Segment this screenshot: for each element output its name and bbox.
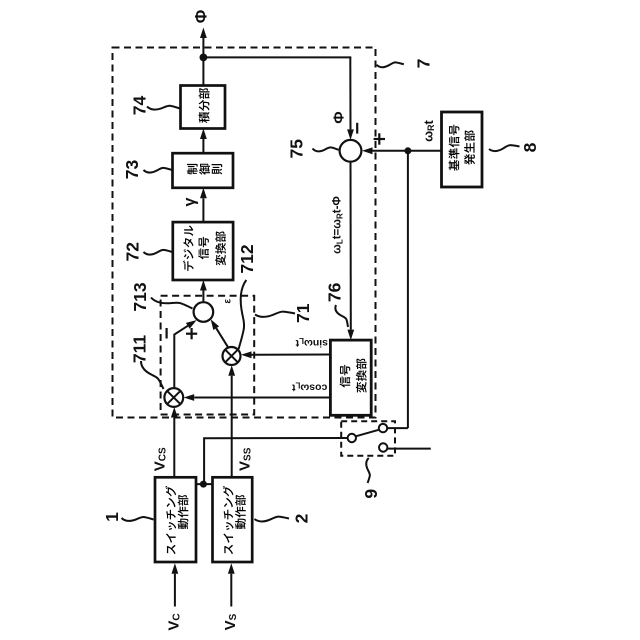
block 2 switching operation <box>213 477 253 562</box>
svg-text:71: 71 <box>293 303 313 323</box>
svg-text:1: 1 <box>102 512 122 522</box>
wire output arrow to Phi <box>202 38 204 57</box>
squiggle 711 <box>141 361 164 389</box>
wire bottom contact stub <box>388 448 431 450</box>
multiplier 712 <box>223 347 241 365</box>
svg-text:Φ: Φ <box>193 9 211 23</box>
squiggle 8 <box>489 145 520 151</box>
svg-text:76: 76 <box>325 282 345 302</box>
wire Vcs into 711 <box>173 418 175 478</box>
svg-text:75: 75 <box>287 139 307 159</box>
block 8 reference signal generator <box>442 112 483 187</box>
svg-text:7: 7 <box>414 59 434 69</box>
svg-text:711: 711 <box>130 335 150 363</box>
wire 711 to 713 <box>174 326 188 388</box>
switch 9 dashed box <box>341 421 395 456</box>
squiggle 7 <box>377 62 404 67</box>
svg-text:74: 74 <box>129 96 149 116</box>
summing circle 713 <box>194 302 214 322</box>
squiggle 712 <box>239 280 247 349</box>
squiggle 73 <box>144 168 173 173</box>
minus sign at 713 <box>166 328 168 339</box>
wire Vc input <box>174 574 176 607</box>
wire junction stub <box>196 483 213 485</box>
node junction at output <box>200 54 208 62</box>
squiggle 713 <box>151 298 193 309</box>
switch contact top <box>379 424 387 432</box>
wire Vs input <box>230 574 232 607</box>
node junction right <box>404 147 411 154</box>
squiggle 76 <box>335 305 348 327</box>
svg-text:73: 73 <box>122 160 142 180</box>
svg-text:9: 9 <box>361 489 381 499</box>
svg-text:Φ: Φ <box>330 111 347 123</box>
switch lever <box>356 430 380 437</box>
wire 75 to 76, omega_L t = omega_R t - Phi <box>350 162 352 330</box>
block 73 control law <box>173 153 234 188</box>
svg-text:ωLt=ωRt-Φ: ωLt=ωRt-Φ <box>331 196 344 254</box>
wire node to box 8 <box>408 150 442 152</box>
svg-text:ε: ε <box>223 299 234 304</box>
wire 712 to 713 <box>216 328 229 348</box>
minus sign at 75 top input <box>356 123 358 134</box>
wire switch to blocks junction <box>204 438 347 484</box>
squiggle 71 <box>255 312 295 317</box>
block 72 digital signal converter <box>173 222 233 280</box>
squiggle 72 <box>144 250 173 255</box>
block 76 signal converter <box>330 340 371 415</box>
svg-text:713: 713 <box>130 282 150 311</box>
svg-text:712: 712 <box>237 244 257 273</box>
svg-text:γ: γ <box>182 197 199 206</box>
switch contact bottom <box>379 443 387 451</box>
svg-text:sinωLt: sinωLt <box>295 337 328 350</box>
wire node to switch 9 <box>407 151 409 428</box>
plus sign at 713 <box>186 333 197 335</box>
block 1 switching operation <box>155 477 196 562</box>
squiggle 2 <box>255 517 290 522</box>
switch pole contact <box>348 434 356 442</box>
squiggle 75 <box>313 147 339 151</box>
arrow 72 to 73, gamma <box>202 198 204 222</box>
summing circle 75 <box>340 140 362 162</box>
sin wire 76 to 712 <box>252 354 331 356</box>
squiggle 9 <box>366 458 370 483</box>
wire node to summing circle 75 <box>203 56 350 58</box>
cos wire 76 to 711 <box>194 397 330 399</box>
plus sign at 75 right input <box>374 138 385 140</box>
arrow 73 to 74 <box>202 139 204 153</box>
svg-text:72: 72 <box>122 242 142 262</box>
squiggle 1 <box>122 517 154 521</box>
dashed box 7 <box>113 48 376 418</box>
wire node8 to 75 <box>373 150 408 152</box>
multiplier 711 <box>164 388 183 407</box>
svg-text:8: 8 <box>520 142 540 152</box>
arrow 713 to 72, epsilon <box>202 291 204 303</box>
wire Vss into 712 <box>231 376 233 478</box>
wire node down to integrator 74 <box>202 57 204 85</box>
squiggle 74 <box>147 106 180 110</box>
node junction between blocks <box>200 481 207 488</box>
block 74 integrator <box>181 86 226 129</box>
inner dashed box 71 <box>161 296 255 415</box>
svg-text:2: 2 <box>292 513 312 523</box>
